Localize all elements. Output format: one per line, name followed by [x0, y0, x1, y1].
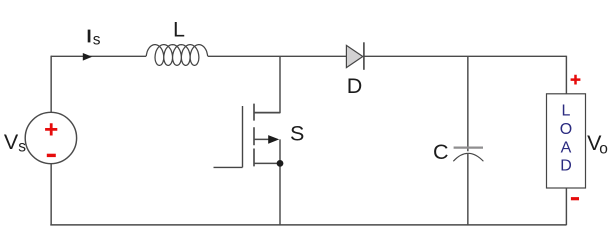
- svg-text:s: s: [93, 32, 101, 49]
- svg-text:C: C: [433, 140, 449, 164]
- label Is: [88, 30, 101, 49]
- inductor L: [146, 45, 207, 66]
- wire MOSFET drain riser: [254, 56, 280, 112]
- svg-text:L: L: [562, 103, 571, 120]
- wire top rail middle (inductor to diode): [208, 55, 347, 57]
- svg-text:O: O: [560, 121, 572, 138]
- load box: [547, 94, 586, 188]
- label Vo: [587, 131, 608, 158]
- junction dot (MOSFET source node): [277, 160, 284, 167]
- current arrow Is: [83, 53, 92, 61]
- wire right vertical (load box to bottom rail): [565, 188, 567, 225]
- voltage source Vs: [25, 112, 76, 163]
- wire left vertical (source top lead): [50, 56, 52, 113]
- capacitor C: [453, 148, 483, 162]
- plus terminal (output +): [571, 75, 581, 85]
- svg-text:V: V: [4, 130, 19, 154]
- wire left vertical (source bottom lead): [50, 164, 52, 225]
- wire MOSFET source drop: [279, 163, 281, 225]
- wire capacitor drop (capacitor to bottom rail): [467, 154, 469, 225]
- svg-text:D: D: [560, 158, 572, 175]
- minus terminal (output -): [571, 197, 579, 200]
- svg-text:D: D: [347, 74, 363, 98]
- diode D: [346, 42, 364, 70]
- svg-text:L: L: [173, 17, 185, 41]
- label Vs: [4, 130, 26, 156]
- svg-text:A: A: [561, 139, 572, 156]
- wire right vertical (top rail to load box): [565, 56, 567, 94]
- wire top rail left (source corner to inductor): [51, 55, 146, 57]
- svg-text:o: o: [599, 141, 608, 158]
- svg-text:s: s: [18, 139, 26, 156]
- transistor S (MOSFET): [214, 104, 281, 168]
- svg-text:S: S: [290, 122, 304, 146]
- wire top rail right (diode to right corner): [364, 55, 566, 57]
- wire bottom rail: [50, 224, 566, 226]
- wire capacitor riser (top rail to capacitor): [467, 56, 469, 151]
